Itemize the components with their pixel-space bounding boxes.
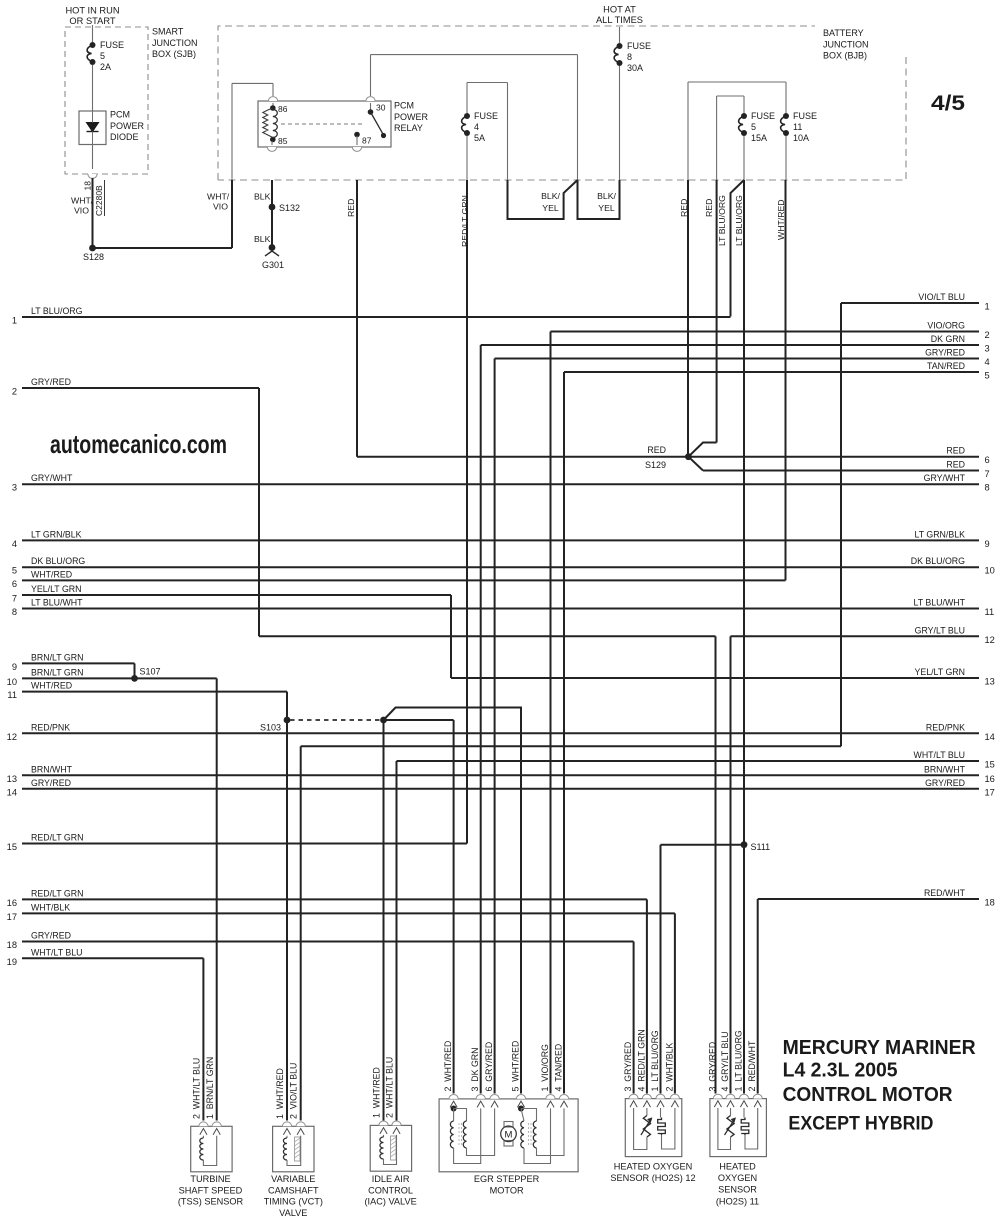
HO2S pin 4&#160;&#160;RED/LT GRN — [642, 1094, 651, 1098]
svg-text:HEATED: HEATED — [719, 1161, 756, 1171]
svg-text:85: 85 — [278, 136, 288, 146]
PCM power diode D1 — [79, 111, 106, 145]
svg-text:RED: RED — [647, 445, 666, 455]
svg-text:86: 86 — [278, 104, 288, 114]
HO2S pin 3&#160;&#160;GRY/RED — [713, 1094, 722, 1098]
svg-text:30: 30 — [376, 103, 386, 113]
IAC pin 1 WHT/RED — [379, 1121, 388, 1125]
svg-text:4: 4 — [985, 357, 990, 367]
svg-text:VIO: VIO — [74, 206, 89, 216]
splice S128 — [89, 245, 96, 252]
svg-text:(TSS) SENSOR: (TSS) SENSOR — [178, 1197, 244, 1207]
relay coil resistor zigzag — [263, 108, 273, 138]
svg-text:15: 15 — [985, 760, 995, 770]
right row 7 wire RED — [703, 470, 979, 472]
left row 1 wire LT BLU/ORG — [22, 316, 731, 318]
wire fuse4 down (RED/LT GRN inside box) — [466, 136, 468, 180]
svg-text:WHT/LT BLU: WHT/LT BLU — [914, 750, 965, 760]
svg-text:10: 10 — [985, 566, 995, 576]
svg-text:BATTERY: BATTERY — [823, 28, 864, 38]
svg-text:2: 2 — [12, 387, 17, 397]
svg-text:EGR STEPPER: EGR STEPPER — [474, 1174, 540, 1184]
left row 12 wire RED/PNK — [22, 732, 979, 734]
svg-text:OR START: OR START — [69, 16, 115, 26]
svg-text:S111: S111 — [751, 842, 771, 852]
svg-text:FUSE: FUSE — [627, 41, 651, 51]
svg-text:LT BLU/ORG: LT BLU/ORG — [734, 195, 744, 246]
svg-text:9: 9 — [12, 662, 17, 672]
svg-text:4/5: 4/5 — [931, 92, 965, 115]
wire RED from relay 87 down to S129 row — [356, 180, 358, 457]
turbine shaft speed TSS sensor — [191, 1126, 232, 1172]
right row 2 VIO/ORG drop to EGR pin 1 — [550, 332, 552, 1094]
svg-text:10: 10 — [7, 677, 17, 687]
svg-text:16: 16 — [7, 898, 17, 908]
left row 2 wire GRY/RED — [22, 387, 259, 389]
svg-text:WHT/BLK: WHT/BLK — [31, 902, 70, 912]
svg-text:18: 18 — [985, 898, 995, 908]
svg-text:BRN/WHT: BRN/WHT — [924, 764, 966, 774]
svg-text:16: 16 — [985, 774, 995, 784]
svg-text:3: 3 — [12, 483, 17, 493]
wire RED/LT GRN from fuse 4 down — [466, 180, 468, 844]
wire up at x=232 — [231, 180, 233, 248]
svg-text:WHT/: WHT/ — [207, 192, 230, 202]
svg-text:WHT/RED: WHT/RED — [31, 681, 72, 691]
svg-text:RELAY: RELAY — [394, 123, 423, 133]
svg-text:DK GRN: DK GRN — [931, 334, 965, 344]
svg-text:9: 9 — [985, 539, 990, 549]
svg-text:7: 7 — [985, 469, 990, 479]
right row 5 wire TAN/RED — [564, 371, 979, 373]
EGR internal left cluster — [451, 1106, 457, 1112]
svg-text:3 DK GRN: 3 DK GRN — [470, 1048, 480, 1092]
svg-text:1 LT BLU/ORG: 1 LT BLU/ORG — [734, 1030, 744, 1091]
HO2S pin 2&#160;&#160;WHT/BLK — [670, 1094, 679, 1098]
svg-text:JUNCTION: JUNCTION — [823, 39, 869, 49]
EGR pin 3 — [476, 1095, 485, 1099]
EGR pin 1 — [546, 1095, 555, 1099]
fuse 11 10A — [783, 113, 789, 119]
svg-text:L4 2.3L 2005: L4 2.3L 2005 — [783, 1060, 898, 1082]
splice S103 — [284, 717, 291, 724]
svg-text:15: 15 — [7, 842, 17, 852]
svg-text:2 VIO/LT BLU: 2 VIO/LT BLU — [289, 1063, 299, 1119]
left row 17 wire WHT/BLK — [22, 912, 675, 914]
svg-text:10A: 10A — [793, 133, 809, 143]
svg-text:RED: RED — [946, 460, 965, 470]
svg-text:S107: S107 — [140, 667, 161, 677]
svg-text:1 VIO/ORG: 1 VIO/ORG — [540, 1044, 550, 1092]
left row 19 wire WHT/LT BLU — [22, 957, 203, 959]
svg-text:JUNCTION: JUNCTION — [152, 38, 198, 48]
svg-text:FUSE: FUSE — [751, 111, 775, 121]
VCT internal coil and gate — [286, 1136, 288, 1138]
svg-text:BLK: BLK — [254, 192, 271, 202]
wire S111 branch to HO2S12 pin 1 — [661, 844, 745, 846]
PCM power relay — [258, 101, 391, 147]
VCT pin 2 VIO/LT BLU — [296, 1122, 305, 1126]
smart junction box SJB (dashed) — [65, 27, 148, 174]
wire fuse8 down to BLK/YEL loop — [619, 66, 621, 180]
HO2S pin 1&#160;&#160;LT BLU/ORG — [656, 1094, 665, 1098]
left row 11 WHT/RED drop to S103 — [286, 692, 288, 720]
relay pin 85 — [270, 137, 276, 143]
svg-text:8: 8 — [985, 483, 990, 493]
svg-text:FUSE: FUSE — [793, 111, 817, 121]
wire LT BLU/ORG straight from fuse 5 down to S111 — [743, 180, 745, 1094]
left row 13 wire BRN/WHT — [22, 774, 979, 776]
svg-text:LT BLU/ORG: LT BLU/ORG — [31, 306, 83, 316]
left row 10 wire BRN/LT GRN — [22, 677, 217, 679]
wire feed into BJB — [619, 27, 621, 43]
fuse 5 2A — [90, 42, 96, 48]
svg-text:13: 13 — [985, 677, 995, 687]
EGR internal right cluster — [518, 1106, 524, 1112]
left row 4 wire LT GRN/BLK — [22, 539, 979, 541]
svg-text:13: 13 — [7, 774, 17, 784]
wire S103 down to VCT pin 1 — [286, 720, 288, 1121]
svg-text:CAMSHAFT: CAMSHAFT — [268, 1185, 319, 1195]
relay pin 30 and switch — [370, 103, 372, 112]
svg-text:18: 18 — [7, 940, 17, 950]
svg-text:GRY/RED: GRY/RED — [31, 931, 71, 941]
svg-text:LT BLU/ORG: LT BLU/ORG — [717, 195, 727, 246]
wire SJB to S128 — [92, 178, 94, 248]
svg-text:1 LT BLU/ORG: 1 LT BLU/ORG — [650, 1030, 660, 1091]
relay pin 87 — [354, 132, 360, 138]
right row 15 WHT/LT BLU drop to IAC pin 2 — [396, 761, 398, 1121]
svg-text:RED: RED — [679, 199, 689, 217]
svg-text:S128: S128 — [83, 252, 104, 262]
svg-text:BLK: BLK — [254, 234, 271, 244]
svg-text:DK BLU/ORG: DK BLU/ORG — [911, 556, 965, 566]
left row 9 wire BRN/LT GRN — [22, 662, 135, 664]
right row 1 VIO/LT BLU drop to VCT pin 2 — [840, 303, 842, 746]
svg-text:3 GRY/RED: 3 GRY/RED — [623, 1042, 633, 1092]
svg-text:YEL/LT GRN: YEL/LT GRN — [31, 584, 82, 594]
svg-text:DIODE: DIODE — [110, 132, 139, 142]
svg-text:14: 14 — [985, 732, 995, 742]
svg-text:WHT/LT BLU: WHT/LT BLU — [31, 947, 82, 957]
svg-text:RED/PNK: RED/PNK — [31, 722, 70, 732]
svg-text:M: M — [505, 1130, 513, 1141]
svg-text:GRY/RED: GRY/RED — [31, 377, 71, 387]
IAC pin 2 WHT/LT BLU — [392, 1121, 401, 1125]
svg-text:5: 5 — [12, 566, 17, 576]
wire S128 to relay coil (horizontal) — [93, 247, 233, 249]
EGR pin 5 — [516, 1095, 525, 1099]
svg-text:8: 8 — [627, 52, 632, 62]
svg-text:LT BLU/WHT: LT BLU/WHT — [31, 598, 83, 608]
svg-text:WHT/RED: WHT/RED — [31, 569, 72, 579]
svg-text:4 GRY/LT BLU: 4 GRY/LT BLU — [720, 1031, 730, 1091]
EGR motor M — [504, 1122, 513, 1128]
svg-text:HOT IN RUN: HOT IN RUN — [65, 6, 119, 16]
svg-text:C2280B: C2280B — [94, 185, 104, 216]
right row 3 wire DK GRN — [481, 344, 979, 346]
S103 second splice — [380, 717, 387, 724]
right row 4 wire GRY/RED — [495, 358, 979, 360]
EGR pin 4 — [559, 1095, 568, 1099]
wire diode to SJB edge — [92, 145, 94, 170]
svg-text:GRY/RED: GRY/RED — [925, 348, 965, 358]
svg-text:5A: 5A — [474, 133, 485, 143]
wire S103b down to IAC pin 1 — [383, 720, 385, 1121]
svg-text:RED/LT GRN: RED/LT GRN — [460, 195, 470, 247]
svg-text:TIMING (VCT): TIMING (VCT) — [264, 1197, 323, 1207]
ground G301 — [269, 244, 276, 251]
right row 18 wire RED/WHT — [758, 898, 979, 900]
heated oxygen sensor HO2S 11 — [710, 1099, 767, 1157]
svg-text:TAN/RED: TAN/RED — [927, 361, 965, 371]
fuse 4 5A — [466, 83, 468, 114]
right row 12 wire GRY/LT BLU — [731, 635, 980, 637]
HO2S pin 1&#160;&#160;LT BLU/ORG — [739, 1094, 748, 1098]
right row 2 wire VIO/ORG — [551, 331, 980, 333]
relay top bump pin 30 — [366, 97, 375, 101]
svg-text:2A: 2A — [100, 62, 111, 72]
svg-text:19: 19 — [7, 957, 17, 967]
battery junction box BJB (dashed) — [218, 26, 815, 180]
svg-text:RED: RED — [704, 199, 714, 217]
HO2S internal variable resistor — [730, 1108, 732, 1116]
wire BLK/YEL loop 1 — [508, 180, 578, 219]
wire RED (fuse11 feed) down to S129 — [687, 180, 689, 457]
left row 7 wire YEL/LT GRN — [22, 594, 451, 596]
HO2S internal variable resistor — [646, 1108, 648, 1116]
svg-text:VIO/LT BLU: VIO/LT BLU — [918, 292, 965, 302]
right row 1 wire VIO/LT BLU — [841, 302, 979, 304]
svg-text:RED/WHT: RED/WHT — [924, 888, 966, 898]
wire over to relay 86 — [232, 82, 273, 84]
left row 7 YEL/LT GRN drop and run to pin 13 — [450, 595, 452, 678]
svg-text:1 WHT/RED: 1 WHT/RED — [372, 1067, 382, 1118]
svg-text:6: 6 — [985, 455, 990, 465]
svg-text:5: 5 — [100, 51, 105, 61]
connector bump C2280B at SJB bottom — [88, 174, 97, 178]
left row 16 RED/LT GRN drop to HO2S12 pin 4 — [646, 899, 648, 1093]
HO2S internal heater — [660, 1108, 662, 1118]
svg-text:S129: S129 — [645, 460, 666, 470]
right row 4 GRY/RED drop to EGR pin 6 — [494, 359, 496, 1094]
svg-text:17: 17 — [985, 787, 995, 797]
svg-text:HOT AT: HOT AT — [603, 5, 636, 15]
TSS pin 2 WHT/LT BLU — [199, 1122, 208, 1126]
left row 15 wire RED/LT GRN — [22, 843, 467, 845]
wire WHT/RED from fuse 11 down to left row 6 — [785, 180, 787, 580]
wire BLK from relay 85 — [271, 180, 273, 207]
svg-text:18: 18 — [83, 181, 93, 191]
svg-text:MERCURY MARINER: MERCURY MARINER — [783, 1037, 977, 1059]
right row 15 wire WHT/LT BLU — [397, 760, 980, 762]
splice S107 — [134, 663, 136, 678]
svg-text:BRN/LT GRN: BRN/LT GRN — [31, 652, 83, 662]
S103 dashed link — [290, 719, 380, 721]
TSS pin 1 BRN/LT GRN — [212, 1122, 221, 1126]
wire S103b to EGR pin 2 — [384, 719, 454, 721]
svg-text:HEATED OXYGEN: HEATED OXYGEN — [614, 1161, 692, 1171]
left row 6 wire WHT/RED — [22, 579, 786, 581]
relay coil winding — [273, 110, 278, 138]
svg-text:MOTOR: MOTOR — [490, 1185, 524, 1195]
wire BLK to ground — [271, 207, 273, 248]
svg-text:GRY/RED: GRY/RED — [31, 778, 71, 788]
HO2S pin 2&#160;&#160;RED/WHT — [753, 1094, 762, 1098]
right row 18 RED/WHT drop to HO2S11 pin2 — [757, 899, 759, 1094]
relay bottom bump pin 85 — [267, 147, 276, 151]
svg-text:RED/LT GRN: RED/LT GRN — [31, 888, 83, 898]
svg-text:8: 8 — [12, 607, 17, 617]
svg-text:POWER: POWER — [110, 121, 145, 131]
S129 jog to right row 7 — [688, 457, 703, 471]
left row 17 WHT/BLK drop to HO2S12 pin 2 — [674, 913, 676, 1093]
svg-text:12: 12 — [7, 732, 17, 742]
svg-text:5: 5 — [751, 122, 756, 132]
left row 3 wire GRY/WHT — [22, 483, 979, 485]
svg-text:15A: 15A — [751, 133, 767, 143]
svg-text:3: 3 — [985, 344, 990, 354]
fuse 8 30A — [617, 43, 623, 49]
svg-text:SENSOR: SENSOR — [718, 1185, 757, 1195]
VCT pin 1 WHT/RED — [282, 1122, 291, 1126]
IAC internal coil and gate — [383, 1135, 385, 1137]
svg-text:BRN/LT GRN: BRN/LT GRN — [31, 667, 83, 677]
svg-text:LT BLU/WHT: LT BLU/WHT — [914, 598, 966, 608]
svg-text:G301: G301 — [262, 260, 284, 270]
svg-text:FUSE: FUSE — [100, 40, 124, 50]
svg-text:LT GRN/BLK: LT GRN/BLK — [31, 529, 82, 539]
svg-text:EXCEPT HYBRID: EXCEPT HYBRID — [788, 1114, 933, 1135]
wire relay30 feed from BLK/YEL junction — [370, 55, 372, 96]
svg-text:YEL: YEL — [598, 203, 615, 213]
svg-text:TURBINE: TURBINE — [190, 1174, 230, 1184]
left row 14 wire GRY/RED — [22, 788, 979, 790]
EGR pin 2 — [449, 1095, 458, 1099]
right row 5 TAN/RED drop to EGR pin 4 — [563, 372, 565, 1094]
svg-text:6: 6 — [12, 579, 17, 589]
fuse 5 15A — [741, 113, 747, 119]
splice S111 — [741, 841, 748, 848]
svg-text:BLK/: BLK/ — [597, 191, 616, 201]
svg-text:YEL: YEL — [542, 203, 559, 213]
heated oxygen sensor HO2S 12 — [625, 1099, 682, 1157]
wire S103b jog to EGR pin 5 — [384, 708, 522, 1094]
svg-text:RED/PNK: RED/PNK — [926, 722, 965, 732]
svg-text:1 WHT/RED: 1 WHT/RED — [275, 1068, 285, 1119]
svg-text:VARIABLE: VARIABLE — [271, 1174, 315, 1184]
svg-text:SMART: SMART — [152, 27, 184, 37]
svg-text:VALVE: VALVE — [279, 1208, 307, 1218]
svg-text:(IAC) VALVE: (IAC) VALVE — [364, 1197, 416, 1207]
svg-text:BRN/WHT: BRN/WHT — [31, 764, 73, 774]
svg-text:S103: S103 — [260, 723, 281, 733]
EGR stepper motor — [439, 1099, 578, 1172]
svg-text:3 GRY/RED: 3 GRY/RED — [707, 1042, 717, 1092]
svg-text:ALL TIMES: ALL TIMES — [596, 15, 643, 25]
svg-text:RED: RED — [946, 446, 965, 456]
svg-text:LT GRN/BLK: LT GRN/BLK — [914, 529, 965, 539]
svg-text:30A: 30A — [627, 63, 643, 73]
svg-text:CONTROL: CONTROL — [368, 1185, 413, 1195]
wire RED (fuse5 feed) down to S129 jog — [716, 180, 718, 443]
svg-text:RED: RED — [346, 199, 356, 217]
svg-text:BOX (SJB): BOX (SJB) — [152, 49, 196, 59]
svg-text:1: 1 — [12, 316, 17, 326]
svg-text:4 RED/LT GRN: 4 RED/LT GRN — [636, 1029, 646, 1091]
wire fuse5 to diode — [92, 65, 94, 111]
svg-text:RED/LT GRN: RED/LT GRN — [31, 833, 83, 843]
svg-text:11: 11 — [7, 690, 17, 700]
svg-text:2 WHT/LT BLU: 2 WHT/LT BLU — [192, 1058, 202, 1119]
svg-text:17: 17 — [7, 912, 17, 922]
left row 18 GRY/RED drop to HO2S12 pin 3 — [633, 942, 635, 1094]
left row 18 wire GRY/RED — [22, 941, 634, 943]
EGR pin 6 — [490, 1095, 499, 1099]
svg-text:1 BRN/LT GRN: 1 BRN/LT GRN — [205, 1057, 215, 1119]
svg-text:BLK/: BLK/ — [541, 191, 560, 201]
svg-text:FUSE: FUSE — [474, 111, 498, 121]
svg-text:SHAFT SPEED: SHAFT SPEED — [179, 1185, 243, 1195]
svg-text:OXYGEN: OXYGEN — [718, 1173, 757, 1183]
relay internal dashed link — [281, 123, 364, 125]
svg-text:GRY/WHT: GRY/WHT — [924, 473, 966, 483]
wire feed horizontal to fuse 11 — [688, 81, 786, 83]
svg-text:11: 11 — [793, 122, 802, 132]
wire LT BLU/ORG jog from fuse 5 to left row 1 — [731, 180, 745, 317]
wire feed horizontal to fuse 5 — [717, 95, 744, 97]
splice S132 — [269, 204, 276, 211]
left row 19 WHT/LT BLU drop to TSS pin 2 — [202, 958, 204, 1120]
left row 11 wire WHT/RED — [22, 691, 287, 693]
TSS internal coil — [202, 1136, 204, 1138]
HO2S internal heater — [743, 1108, 745, 1118]
svg-text:WHT/: WHT/ — [71, 196, 94, 206]
wire feed into SJB — [92, 25, 94, 42]
svg-text:4: 4 — [474, 122, 479, 132]
left row 8 wire LT BLU/WHT — [22, 608, 979, 610]
left row 16 wire RED/LT GRN — [22, 898, 647, 900]
svg-text:4: 4 — [12, 539, 17, 549]
svg-text:2: 2 — [985, 330, 990, 340]
svg-text:5: 5 — [985, 371, 990, 381]
svg-text:VIO: VIO — [213, 202, 228, 212]
relay pin 86 — [272, 103, 274, 108]
svg-text:12: 12 — [985, 635, 995, 645]
right row 6 wire RED — [357, 456, 979, 458]
svg-text:SENSOR (HO2S) 12: SENSOR (HO2S) 12 — [610, 1173, 695, 1183]
svg-text:5 WHT/RED: 5 WHT/RED — [511, 1041, 521, 1092]
svg-text:6 GRY/RED: 6 GRY/RED — [484, 1042, 494, 1092]
svg-text:BOX (BJB): BOX (BJB) — [823, 51, 867, 61]
svg-text:POWER: POWER — [394, 112, 429, 122]
svg-text:87: 87 — [362, 136, 372, 146]
left row 5 wire DK BLU/ORG — [22, 566, 979, 568]
splice S129 — [685, 453, 692, 460]
right row 12 GRY/LT BLU drop to HO2S11 pin4 — [730, 636, 732, 1093]
svg-text:GRY/RED: GRY/RED — [925, 778, 965, 788]
left row 2 GRY/RED drop and run to HO2S11 pin3 — [258, 388, 260, 636]
relay top bump pin 86 — [268, 97, 277, 101]
svg-text:2 WHT/BLK: 2 WHT/BLK — [664, 1042, 674, 1091]
right row 3 DK GRN drop to EGR pin 3 — [480, 345, 482, 1094]
wire S107 down to TSS pin 1 — [216, 678, 218, 1120]
svg-text:2 WHT/LT BLU: 2 WHT/LT BLU — [385, 1057, 395, 1118]
svg-text:7: 7 — [12, 594, 17, 604]
svg-text:IDLE AIR: IDLE AIR — [372, 1174, 410, 1184]
svg-text:2 RED/WHT: 2 RED/WHT — [747, 1040, 757, 1091]
idle air control IAC valve — [370, 1125, 411, 1171]
